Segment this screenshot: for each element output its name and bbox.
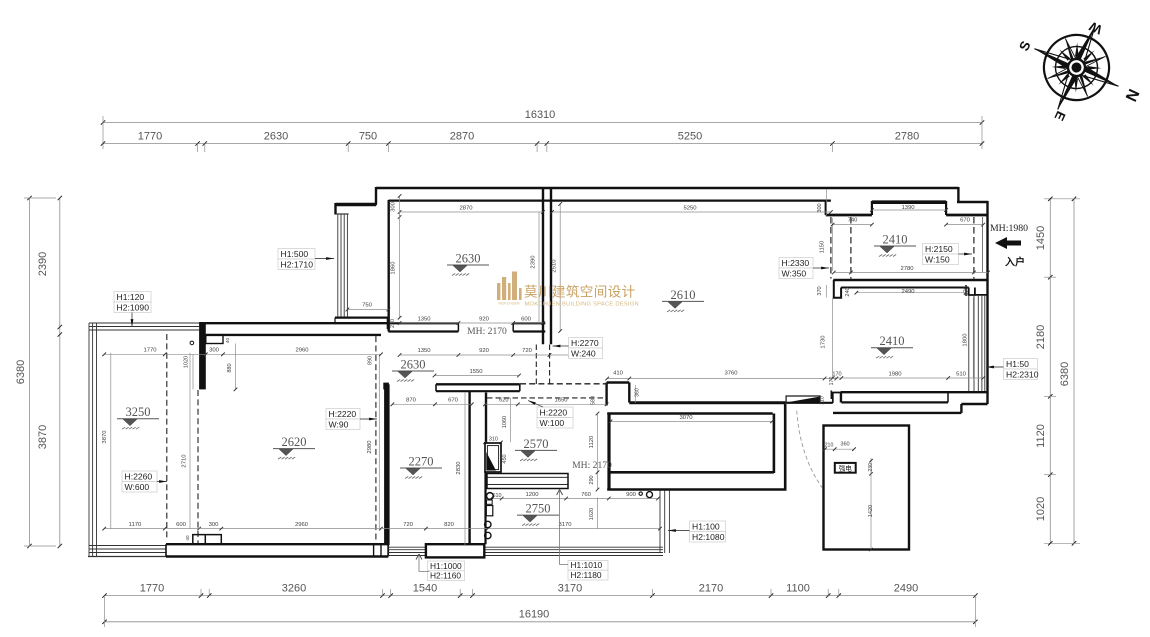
svg-text:40: 40 [225, 338, 230, 344]
svg-text:720: 720 [522, 348, 533, 354]
label H1:1010 H2:1180 [568, 560, 608, 570]
svg-text:2750: 2750 [526, 502, 551, 516]
svg-text:W:100: W:100 [540, 418, 565, 428]
svg-text:620: 620 [499, 398, 508, 404]
svg-text:6380: 6380 [15, 360, 27, 384]
dim garden 3870 left [110, 353, 112, 529]
left dimension chain segments 2390 3870 [59, 198, 61, 546]
svg-text:W:350: W:350 [782, 268, 807, 278]
wall left room top [199, 322, 336, 324]
svg-text:1770: 1770 [143, 348, 157, 354]
shower box [485, 443, 501, 472]
svg-text:H2:1090: H2:1090 [117, 302, 150, 312]
label H1:500 H2:1710 [278, 249, 315, 260]
svg-text:2620: 2620 [282, 435, 307, 449]
notch stub left room top [206, 335, 223, 344]
right dimension chain 6380 [1073, 199, 1075, 544]
wall entry north band niche [872, 200, 946, 204]
svg-text:880: 880 [227, 363, 233, 372]
svg-text:1650: 1650 [554, 398, 568, 404]
wall left room bottom band [166, 543, 388, 545]
watermark logo building icon [497, 272, 522, 301]
top dimension chain total 16310 [103, 122, 982, 124]
dim bathroom 1550 [435, 375, 520, 377]
svg-text:300: 300 [209, 348, 220, 354]
dim bathroom 1020 vertical [597, 498, 599, 529]
svg-text:2870: 2870 [450, 131, 474, 143]
svg-text:H:2150: H:2150 [925, 244, 953, 254]
svg-text:760: 760 [581, 492, 592, 498]
dim counter row 610 1200 760 900 [491, 498, 660, 500]
svg-text:W:150: W:150 [925, 254, 950, 264]
svg-text:1550: 1550 [469, 369, 483, 375]
svg-text:360: 360 [635, 388, 641, 397]
dim corridor 3070 [611, 420, 773, 422]
wall corridor right vertical [773, 414, 776, 474]
svg-text:2170: 2170 [699, 583, 723, 595]
svg-text:W:600: W:600 [125, 482, 150, 492]
dim bottom middle 720 820 [381, 528, 488, 530]
dim 1020 stub [192, 354, 194, 389]
svg-text:1860: 1860 [391, 261, 397, 275]
svg-text:1770: 1770 [140, 583, 164, 595]
svg-text:3760: 3760 [724, 371, 738, 377]
svg-text:5250: 5250 [683, 206, 697, 212]
svg-text:1020: 1020 [589, 508, 595, 520]
svg-text:H:2220: H:2220 [329, 409, 357, 419]
dim bedroom 1860 [399, 212, 401, 318]
door leaf wedge [786, 396, 820, 403]
dim balcony 750 [347, 309, 388, 311]
dim entry left 1150 [832, 218, 834, 271]
bottom dimension chain segments [105, 595, 976, 597]
dim entry 1390 niche [872, 209, 946, 211]
svg-text:920: 920 [479, 317, 490, 323]
window top-left balcony glazing [337, 214, 339, 317]
svg-text:170: 170 [829, 377, 835, 386]
svg-text:230: 230 [868, 463, 874, 472]
svg-text:H2:1180: H2:1180 [571, 570, 602, 580]
svg-text:290: 290 [589, 475, 595, 484]
extension line middle [378, 355, 380, 528]
wall notch right of door [833, 393, 841, 404]
entry-bedroom divider wall top [833, 279, 987, 282]
svg-text:3170: 3170 [558, 522, 572, 528]
svg-text:MH: 2170: MH: 2170 [467, 326, 507, 337]
thin line entry right [981, 217, 983, 272]
svg-text:450: 450 [502, 454, 508, 463]
dim entry 740 [833, 224, 872, 226]
svg-text:W:240: W:240 [571, 348, 596, 358]
qiangdian electric box [835, 463, 856, 473]
dim bathroom 870 670 [392, 403, 471, 405]
svg-text:MOKCHUEN: MOKCHUEN [499, 302, 520, 306]
svg-text:1020: 1020 [184, 356, 190, 368]
svg-text:2180: 2180 [1035, 325, 1047, 349]
dim bottom left room 300 2960 [199, 528, 381, 530]
svg-text:2490: 2490 [894, 583, 918, 595]
left dimension chain 6380 [29, 198, 31, 546]
svg-text:370: 370 [817, 286, 823, 295]
wall right outer lower [986, 278, 988, 405]
dim bedroom 2390 right [538, 212, 540, 323]
svg-text:3070: 3070 [679, 415, 693, 421]
svg-text:40: 40 [185, 535, 190, 541]
svg-text:1060: 1060 [502, 416, 508, 428]
dim dashed 620 1650 580 [485, 403, 607, 405]
svg-text:580: 580 [591, 396, 597, 405]
svg-text:1980: 1980 [888, 372, 902, 378]
svg-text:750: 750 [362, 303, 373, 309]
svg-text:2610: 2610 [671, 288, 696, 302]
dim bottom 3170 [488, 528, 660, 530]
dim bedroom top 2870 [400, 211, 543, 213]
svg-text:H:2260: H:2260 [125, 471, 153, 481]
svg-text:2270: 2270 [409, 455, 434, 469]
svg-text:2870: 2870 [459, 206, 473, 212]
svg-text:1020: 1020 [1035, 497, 1047, 521]
dim bathroom 1060 [509, 398, 511, 442]
svg-text:1150: 1150 [820, 240, 826, 253]
dashed removed wall garden [166, 334, 168, 540]
small circle left room top [190, 341, 194, 345]
svg-text:H:2270: H:2270 [571, 338, 599, 348]
svg-text:H1:500: H1:500 [281, 249, 309, 259]
svg-text:16310: 16310 [525, 109, 556, 121]
wall top-right entry step [957, 187, 959, 202]
svg-text:强电: 强电 [839, 464, 853, 473]
wall middle room left solid lower [384, 384, 390, 545]
svg-text:300: 300 [817, 203, 823, 212]
svg-text:820: 820 [444, 522, 455, 528]
svg-text:3170: 3170 [558, 583, 582, 595]
svg-text:210: 210 [825, 442, 834, 448]
dim bedroom 300 [399, 196, 401, 217]
dim hallway 360 [634, 385, 636, 403]
divider right notch [969, 288, 988, 296]
svg-text:2630: 2630 [264, 131, 288, 143]
dim living 2510 left [559, 204, 561, 331]
wall bathroom stem right upper [485, 393, 487, 444]
svg-text:H1:100: H1:100 [692, 521, 720, 531]
svg-text:3870: 3870 [102, 430, 108, 444]
wall stub below balcony right [383, 383, 389, 390]
wall top inner bedroom-living [389, 200, 831, 202]
wall bottom-right outer steps [961, 403, 987, 405]
svg-text:670: 670 [448, 398, 459, 404]
svg-text:600: 600 [176, 522, 187, 528]
svg-text:2630: 2630 [456, 252, 481, 266]
svg-text:H1:1010: H1:1010 [571, 560, 603, 570]
label H:2260 W:600 [122, 471, 157, 482]
svg-text:300: 300 [391, 201, 397, 212]
wall corridor lower band bottom [607, 488, 786, 491]
dim left room top 300 2960 [165, 353, 381, 355]
svg-text:2710: 2710 [182, 454, 188, 468]
svg-text:6380: 6380 [1059, 362, 1071, 386]
svg-text:2570: 2570 [524, 437, 549, 451]
door sill line [785, 402, 832, 404]
svg-text:240: 240 [845, 287, 851, 296]
svg-text:2780: 2780 [900, 266, 914, 272]
washer counter rectangle [487, 474, 568, 489]
svg-text:W:90: W:90 [329, 419, 349, 429]
label H1:50 H2:2310 [1004, 359, 1038, 370]
wall right outer entry [986, 201, 988, 278]
svg-text:H2:1160: H2:1160 [430, 571, 461, 581]
pipe symbols column [487, 500, 493, 504]
svg-text:2490: 2490 [901, 289, 915, 295]
dim bedroom2 bottom 170 1980 510 [833, 377, 984, 379]
svg-text:3260: 3260 [282, 583, 306, 595]
dashed removed wall middle [375, 336, 377, 543]
svg-text:2390: 2390 [531, 255, 537, 269]
svg-text:MOKCHUEN BUILDING SPACE DESIGN: MOKCHUEN BUILDING SPACE DESIGN [525, 302, 639, 308]
svg-text:2830: 2830 [456, 461, 462, 475]
dashed wall living-entry boundary [830, 217, 832, 279]
svg-text:1390: 1390 [901, 205, 915, 211]
terrace lines right vertical [659, 491, 661, 554]
label H1:1000 H2:1160 [428, 561, 465, 571]
dim entry 2780 [834, 272, 988, 274]
wall corridor left vertical [607, 414, 610, 490]
dashed removed wall left room left [197, 390, 199, 543]
svg-text:2410: 2410 [880, 334, 905, 348]
svg-text:410: 410 [613, 371, 624, 377]
dashed walls bathroom-hall [535, 345, 537, 385]
line below shower to bottom [484, 472, 486, 544]
svg-text:210: 210 [820, 396, 826, 405]
svg-text:2630: 2630 [401, 358, 426, 372]
svg-text:600: 600 [521, 317, 532, 323]
dim bedroom2 1800 right [972, 298, 974, 379]
svg-text:H2:1080: H2:1080 [692, 532, 725, 542]
svg-text:920: 920 [479, 348, 490, 354]
svg-text:MH: 2170: MH: 2170 [572, 460, 612, 471]
dim shaft 210 360 [825, 448, 854, 450]
label H:2270 W:240 [569, 338, 603, 349]
svg-text:入户: 入户 [1005, 256, 1025, 269]
svg-text:300: 300 [209, 522, 220, 528]
shaft room rectangle [824, 426, 910, 550]
svg-text:H2:1710: H2:1710 [281, 259, 314, 269]
svg-text:1170: 1170 [129, 522, 142, 528]
door swing arc dashed [797, 411, 822, 488]
wall left room left stub [199, 323, 206, 389]
bottom dimension chain total 16190 [105, 621, 976, 623]
wall T-bar bathroom top [436, 383, 520, 385]
dim bedroom2 2490 [856, 292, 965, 294]
svg-text:H:2330: H:2330 [782, 258, 810, 268]
dim bedroom bottom 1350 920 600 [400, 322, 543, 324]
dim bedroom2 370 left [825, 285, 827, 298]
window right bedroom glazing [968, 295, 970, 392]
svg-text:1730: 1730 [821, 335, 827, 349]
drain circles near corridor [639, 492, 642, 495]
svg-text:2980: 2980 [367, 440, 373, 454]
garden fence triple top [89, 322, 199, 324]
garden fence triple lines left [88, 323, 90, 557]
wall corridor top [607, 412, 773, 415]
svg-text:870: 870 [406, 398, 417, 404]
dim middle room 2830 [464, 392, 466, 545]
garden fence triple bottom [89, 545, 166, 547]
svg-text:170: 170 [964, 286, 970, 295]
svg-text:740: 740 [848, 218, 859, 224]
wall bedroom bottom band with door opening MH2170 [388, 322, 458, 324]
svg-text:1800: 1800 [963, 333, 969, 347]
dim corridor 1120 290 [597, 414, 599, 490]
svg-text:1120: 1120 [1035, 424, 1047, 448]
wall bathroom stem left [468, 391, 470, 544]
stub notch bottom wall [193, 535, 222, 544]
svg-text:720: 720 [403, 522, 414, 528]
svg-text:1420: 1420 [868, 505, 874, 517]
divider inner line [841, 287, 969, 289]
svg-text:2390: 2390 [37, 252, 49, 276]
svg-text:H1:50: H1:50 [1006, 359, 1029, 369]
wall right bedroom bottom band [841, 391, 988, 393]
dim shaft 1420 [870, 474, 872, 550]
svg-text:3250: 3250 [126, 405, 151, 419]
dim bottom garden 1170 600 [104, 528, 199, 530]
svg-text:1120: 1120 [589, 435, 595, 448]
label H1:120 H2:1090 [114, 292, 151, 303]
wall shaft vertical right of corridor [784, 404, 787, 490]
label H:2220 W:90 [326, 409, 360, 420]
dim living 5250 [552, 211, 831, 213]
wall bathroom bottom band [426, 544, 484, 557]
svg-text:1100: 1100 [786, 583, 810, 595]
terrace lines quad [388, 546, 663, 548]
dashed wall entry right [973, 217, 975, 279]
svg-text:H:2220: H:2220 [540, 407, 568, 417]
compass rose [1016, 7, 1137, 128]
dim left room 880 [235, 344, 237, 390]
wall top outer [376, 187, 958, 190]
svg-text:1200: 1200 [525, 492, 539, 498]
dim entry 670 [946, 224, 983, 226]
wall balcony bottom band [335, 317, 388, 319]
svg-text:MH:1980: MH:1980 [990, 223, 1028, 234]
svg-text:1350: 1350 [417, 348, 431, 354]
svg-text:900: 900 [626, 492, 637, 498]
svg-text:170: 170 [832, 372, 841, 378]
svg-text:510: 510 [956, 372, 967, 378]
svg-text:230: 230 [390, 319, 396, 328]
wall bedroom-living double vertical [542, 188, 544, 344]
label H:2150 W:150 [923, 244, 959, 255]
svg-text:16190: 16190 [519, 609, 550, 621]
svg-text:2960: 2960 [295, 348, 309, 354]
svg-text:310: 310 [489, 436, 498, 442]
dim hallway 410 3760 170 [607, 378, 836, 380]
label H1:100 H2:1080 [690, 521, 726, 532]
balcony top-left outer wall [336, 204, 377, 206]
right dimension chain segments 1450 2180 1120 1020 [1049, 199, 1051, 544]
dim garden top 1770 [104, 353, 165, 355]
wall top-left step [375, 187, 377, 204]
svg-text:2780: 2780 [895, 131, 919, 143]
svg-text:H1:120: H1:120 [117, 292, 145, 302]
dim shaft 230 [870, 458, 872, 474]
svg-text:2960: 2960 [295, 522, 309, 528]
wall bedroom left vertical [388, 200, 390, 332]
divider left foot [834, 280, 841, 298]
svg-text:1350: 1350 [417, 317, 431, 323]
dim left room 2710 [189, 353, 191, 529]
svg-text:3870: 3870 [37, 425, 49, 449]
dim row below bedroom 1350 920 720 [400, 354, 570, 356]
svg-text:莫川建筑空间设计: 莫川建筑空间设计 [524, 285, 636, 300]
svg-text:360: 360 [840, 441, 849, 447]
wall notch left of bedroom bottom [830, 391, 832, 400]
svg-text:2410: 2410 [883, 233, 908, 247]
label H:2220 W:100 [537, 407, 573, 418]
svg-text:H2:2310: H2:2310 [1006, 369, 1039, 379]
svg-text:1540: 1540 [413, 583, 437, 595]
svg-text:890: 890 [368, 356, 374, 365]
svg-text:1450: 1450 [1035, 226, 1047, 250]
svg-text:5250: 5250 [678, 131, 702, 143]
wall right bedroom window jambs [965, 285, 967, 296]
dim bedroom2 1730 left [832, 298, 834, 379]
wall hallway upper with 410 step [607, 381, 630, 383]
entry arrow [995, 237, 1021, 249]
svg-text:1770: 1770 [138, 131, 162, 143]
label H:2330 W:350 [779, 258, 813, 269]
svg-text:2510: 2510 [552, 259, 558, 273]
svg-text:750: 750 [359, 131, 377, 143]
svg-text:670: 670 [960, 218, 971, 224]
top dimension chain segments [103, 143, 982, 145]
wall corridor bottom [609, 471, 774, 474]
svg-text:H1:1000: H1:1000 [430, 561, 462, 571]
